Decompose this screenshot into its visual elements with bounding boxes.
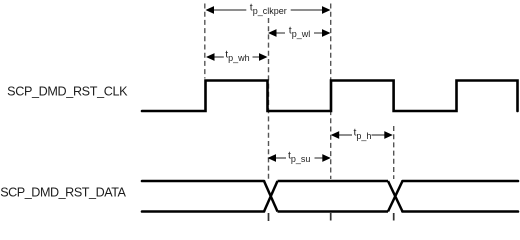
dashed guide line at data transition 2 (x=393.7) — [393, 126, 395, 179]
dimension arrow t_p_h left arrowhead — [331, 131, 340, 139]
dashed guide line at clock rising edge 2 (x=330.5) — [330, 4, 332, 180]
dimension arrow t_p_clkper left arrowhead — [206, 6, 215, 14]
dashed guide line at clock rising edge 1 (x=205) — [204, 4, 206, 79]
dimension arrow t_p_h shaft right — [372, 134, 392, 136]
dashed guide line segment below data at x=268.5 — [268, 213, 270, 221]
data waveform high rail segment 2 — [278, 180, 389, 183]
svg-text:SCP_DMD_RST_CLK: SCP_DMD_RST_CLK — [7, 85, 128, 99]
data waveform low rail segment 3 — [403, 210, 519, 213]
data crossover X2 leg falling — [388, 181, 403, 212]
dimension arrow t_p_wh shaft left — [208, 56, 224, 58]
data crossover X1 leg rising — [264, 181, 278, 212]
dimension arrow t_p_h shaft left — [332, 134, 352, 136]
dimension arrow t_p_wh right arrowhead — [259, 53, 268, 61]
dashed guide line segment below data at x=330.5 — [330, 213, 332, 221]
svg-text:tp_h: tp_h — [354, 126, 372, 141]
svg-text:tp_su: tp_su — [288, 149, 310, 164]
svg-text:tp_wl: tp_wl — [289, 24, 310, 39]
dashed guide line at clock falling edge 1 / data transition 1 (x=268.5) — [268, 18, 270, 179]
clock waveform SCP_DMD_RST_CLK — [142, 81, 518, 112]
dimension arrow t_p_wl shaft right — [314, 32, 329, 34]
data waveform high rail segment 1 — [142, 180, 264, 183]
dimension arrow t_p_clkper shaft left — [207, 9, 246, 11]
svg-text:SCP_DMD_RST_DATA: SCP_DMD_RST_DATA — [0, 186, 126, 200]
data waveform low rail segment 2 — [278, 210, 389, 213]
dimension arrow t_p_wh left arrowhead — [206, 53, 215, 61]
dimension arrow t_p_su right arrowhead — [322, 154, 331, 162]
data crossover X2 leg rising — [388, 181, 403, 212]
dimension arrow t_p_su shaft left — [269, 157, 286, 159]
dashed guide line segment below data at x=393.7 — [393, 213, 395, 221]
dimension arrow t_p_clkper shaft right — [291, 9, 329, 11]
data crossover X1 leg falling — [264, 181, 278, 212]
dimension arrow t_p_h right arrowhead — [384, 131, 393, 139]
svg-text:tp_wh: tp_wh — [225, 48, 249, 63]
dimension arrow t_p_wh shaft right — [253, 56, 267, 58]
dimension arrow t_p_wl right arrowhead — [322, 29, 331, 37]
dimension arrow t_p_wl shaft left — [270, 32, 286, 34]
dimension arrow t_p_su shaft right — [315, 157, 330, 159]
svg-text:tp_clkper: tp_clkper — [250, 1, 287, 16]
data waveform high rail segment 3 — [403, 180, 519, 183]
data waveform low rail segment 1 — [142, 210, 264, 213]
dimension arrow t_p_su left arrowhead — [268, 154, 277, 162]
dimension arrow t_p_clkper right arrowhead — [322, 6, 331, 14]
dimension arrow t_p_wl left arrowhead — [268, 29, 277, 37]
